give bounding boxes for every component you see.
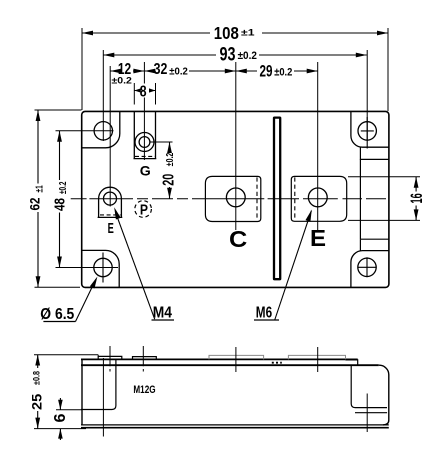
svg-text:M6: M6 (256, 305, 272, 322)
collector pad C (205, 176, 260, 221)
svg-text:±0.2: ±0.2 (58, 181, 69, 194)
arrow 93 right (356, 53, 367, 58)
arrow 93 left (103, 53, 114, 58)
dimension 20 extension line (150, 141, 173, 143)
leader line M4 (116, 213, 155, 320)
side view body left edge (81, 359, 83, 425)
side view centerline gate (142, 346, 144, 372)
arrow 12 left (110, 69, 121, 74)
gate terminal G outer circle (135, 133, 154, 152)
arrow 29 right (307, 69, 318, 74)
svg-text:62: 62 (27, 198, 42, 211)
svg-text:±0.8: ±0.8 (32, 371, 42, 385)
side view centerline aux emitter (109, 346, 111, 372)
collector pad hidden edge dashed (256, 177, 258, 220)
arrow 48 bottom (57, 257, 62, 268)
corner boss top-left (82, 111, 120, 147)
mounting hole top-right (358, 122, 376, 140)
dimension line 12 (110, 70, 144, 72)
plan view module body outline (82, 111, 389, 287)
svg-text:P: P (140, 203, 148, 219)
dimension line 48 (59, 131, 61, 268)
centerline collector column (235, 62, 237, 230)
right rail left edge (359, 159, 361, 239)
side view left end cap (81, 359, 116, 409)
dimension 108 extension lines (82, 28, 388, 111)
svg-text:E: E (108, 221, 114, 237)
centerline right hole column (366, 50, 368, 141)
label P circle (135, 201, 152, 218)
emitter pad hidden edge dashed (294, 177, 296, 220)
arrow 32 right / 29 left pair (225, 69, 236, 74)
arrow 62 bottom (36, 276, 41, 287)
centerline aux emitter column (109, 66, 111, 207)
leader line diameter 6.5 (76, 279, 97, 322)
svg-text:32: 32 (154, 61, 168, 78)
svg-text:C: C (229, 226, 247, 252)
svg-text:20: 20 (161, 174, 178, 186)
svg-text:48: 48 (52, 198, 68, 211)
collector pad hole (226, 188, 245, 207)
arrow 25 top (35, 355, 40, 366)
arrow 20 bottom (167, 188, 172, 199)
side view baseplate top line (81, 424, 389, 426)
side view centerline collector (235, 347, 237, 372)
dimension line 25 (37, 355, 39, 429)
svg-text:±0.2: ±0.2 (164, 153, 176, 167)
arrow 8 left (134, 88, 141, 92)
dimension line 93 (103, 54, 367, 56)
svg-text:±1: ±1 (241, 28, 255, 39)
gate terminal G square (134, 111, 157, 158)
arrow 25 bottom (35, 418, 40, 429)
emitter pad E (291, 176, 346, 221)
emitter pad hole (308, 188, 327, 207)
horizontal centerline (71, 198, 386, 200)
svg-text:G: G (140, 163, 151, 179)
side view gate bump (133, 357, 157, 360)
arrow 62 top (36, 110, 41, 121)
side view cap step line (355, 412, 387, 414)
arrow 20 top (167, 142, 172, 153)
svg-text:Ø 6.5: Ø 6.5 (40, 306, 74, 323)
dimension line 16 (415, 177, 417, 221)
corner boss bottom-left (82, 250, 120, 287)
arrow 6 top outside (58, 400, 63, 410)
dimension line 20 (169, 142, 171, 199)
dimension 48 extension lines (56, 131, 114, 268)
mounting hole bottom-left (94, 258, 112, 276)
dimension line 108 (82, 32, 388, 34)
svg-text:29: 29 (260, 63, 273, 81)
svg-text:108: 108 (214, 23, 239, 43)
svg-text:±0.2: ±0.2 (112, 76, 132, 87)
arrow 6 bottom outside (58, 429, 63, 439)
arrow 8 right (149, 88, 156, 92)
gate terminal G hole (139, 137, 150, 148)
dimension line 32 (144, 70, 235, 72)
leader arrowhead M4 (114, 207, 121, 219)
side view lid top line (81, 358, 358, 360)
centerline emitter pad column (317, 62, 319, 230)
arrow 12 right / 32 left pair (133, 69, 144, 74)
dimension 25 extension line top (34, 355, 98, 357)
aux emitter terminal hidden edge dashed (100, 214, 121, 216)
side view centerline emitter (317, 347, 319, 372)
corner boss top-right (351, 111, 389, 147)
side view emitter bump shelf (346, 360, 358, 365)
svg-text:E: E (310, 225, 326, 251)
svg-text:8: 8 (140, 83, 147, 100)
center slot (274, 118, 280, 280)
arrow 108 left (82, 31, 93, 36)
dimension line 6 arrows outside (59, 398, 61, 440)
mounting hole top-left (94, 122, 112, 140)
side view emitter bump (288, 355, 345, 359)
arrow 16 bottom (414, 209, 419, 220)
right rail step top (360, 147, 389, 159)
side view centerline left hole (102, 358, 104, 437)
svg-text:±1: ±1 (35, 185, 46, 192)
aux emitter terminal E arch (98, 187, 123, 217)
dimension 25 bottom extension line (34, 428, 86, 430)
dimension 16 extension lines (348, 177, 420, 221)
right rail step bottom (360, 239, 389, 250)
leader arrowhead M6 (306, 210, 312, 222)
arrow 108 right (377, 31, 388, 36)
dimension 6 extension line (56, 409, 82, 411)
side view lid lower line (81, 364, 379, 366)
side view right cap outline (379, 365, 389, 425)
aux emitter terminal hole (104, 192, 117, 205)
dimension 8 extension lines (134, 83, 155, 105)
dimension line 62 (37, 110, 39, 287)
side view aux emitter bump (98, 356, 122, 359)
mounting hole bottom-right (358, 258, 376, 276)
side view centerline right hole (366, 394, 368, 433)
side view right end cap (351, 365, 387, 407)
svg-text:6: 6 (52, 413, 69, 422)
arrow 16 top (414, 177, 419, 188)
dimension line 29 (236, 70, 318, 72)
centerline gate column (143, 62, 145, 160)
svg-text:93: 93 (220, 44, 236, 65)
svg-text:±0.2: ±0.2 (238, 50, 257, 62)
arrow 48 top (57, 131, 62, 142)
M6 underline (254, 319, 279, 321)
svg-text:M12G: M12G (133, 384, 155, 396)
svg-text:±0.2: ±0.2 (169, 66, 188, 78)
centerline left hole column (102, 50, 104, 141)
corner boss bottom-right (351, 251, 389, 288)
side view mould dots (272, 362, 282, 364)
svg-text:M4: M4 (153, 305, 172, 322)
leader arrowhead diameter 6.5 (90, 277, 98, 289)
svg-text:25: 25 (28, 393, 44, 410)
leader line M6 (275, 211, 312, 320)
svg-text:±0.2: ±0.2 (274, 67, 292, 79)
gate terminal G hidden edge dashed (135, 155, 155, 157)
svg-text:16: 16 (407, 193, 426, 203)
diameter 6.5 underline (43, 321, 75, 323)
side view baseplate bottom line (81, 427, 389, 429)
M4 underline (152, 319, 175, 321)
side view collector bump (209, 355, 264, 359)
dimension 62 extension lines (35, 110, 82, 287)
dimension line 8 (134, 90, 155, 92)
arrowheads (35, 31, 418, 439)
